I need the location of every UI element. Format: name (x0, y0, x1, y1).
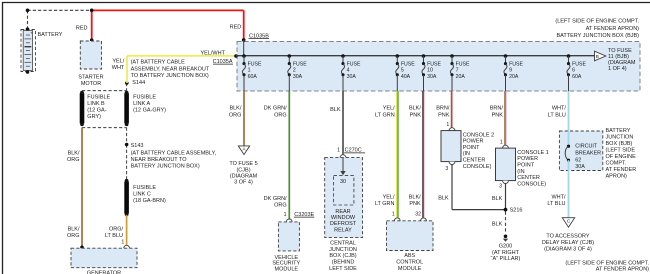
svg-text:CENTER: CENTER (463, 158, 486, 164)
svg-text:BLK: BLK (438, 196, 449, 202)
svg-text:RELAY: RELAY (334, 227, 352, 233)
svg-text:TO BATTERY JUNCTION BOX): TO BATTERY JUNCTION BOX) (131, 73, 209, 79)
svg-text:BLK: BLK (492, 221, 503, 227)
svg-text:YEL/: YEL/ (383, 106, 395, 112)
svg-text:YEL/: YEL/ (112, 58, 124, 64)
svg-text:FUSE: FUSE (401, 61, 415, 67)
svg-text:LINK A: LINK A (133, 101, 150, 107)
svg-text:(LEFT SIDE OF ENGINE COMPT.: (LEFT SIDE OF ENGINE COMPT. (555, 18, 639, 24)
svg-text:YEL/: YEL/ (383, 194, 395, 200)
svg-text:POWER: POWER (463, 139, 484, 145)
svg-text:FUSE: FUSE (572, 61, 586, 67)
svg-text:REAR: REAR (335, 209, 350, 215)
svg-text:1: 1 (284, 212, 287, 218)
svg-text:ORG: ORG (274, 112, 287, 118)
svg-text:G200: G200 (499, 244, 512, 250)
svg-text:AT FENDER APRON): AT FENDER APRON) (586, 26, 639, 32)
svg-text:CONSOLE 2: CONSOLE 2 (463, 132, 494, 138)
svg-text:62: 62 (575, 157, 581, 163)
svg-text:ORG: ORG (229, 112, 242, 118)
svg-text:BATTERY: BATTERY (606, 128, 631, 134)
svg-text:1: 1 (392, 211, 395, 217)
svg-text:AT FENDER APRON): AT FENDER APRON) (596, 267, 649, 273)
svg-text:MODULE: MODULE (275, 267, 299, 273)
svg-text:CONTROL: CONTROL (396, 260, 423, 266)
svg-text:30A: 30A (293, 74, 303, 80)
svg-text:BLK: BLK (330, 107, 341, 113)
svg-text:(LEFT SIDE: (LEFT SIDE (606, 147, 636, 153)
svg-text:JUNCTION: JUNCTION (606, 134, 634, 140)
svg-text:TO ACCESSORY: TO ACCESSORY (546, 233, 590, 239)
svg-text:FUSE: FUSE (427, 61, 441, 67)
svg-text:RED: RED (230, 25, 242, 31)
svg-text:LT BLU: LT BLU (548, 112, 566, 118)
svg-text:3: 3 (445, 166, 448, 172)
svg-text:YEL/WHT: YEL/WHT (201, 50, 226, 56)
svg-text:(12 GA-: (12 GA- (87, 108, 106, 114)
svg-text:ABS: ABS (404, 253, 415, 259)
svg-text:LT GRN: LT GRN (375, 112, 395, 118)
svg-text:BRN/: BRN/ (436, 106, 450, 112)
svg-text:1 OF 4): 1 OF 4) (608, 66, 627, 72)
svg-text:DK GRN/: DK GRN/ (264, 106, 287, 112)
svg-text:LEFT SIDE: LEFT SIDE (329, 266, 357, 272)
svg-text:(DIAGRAM 3 OF 4): (DIAGRAM 3 OF 4) (544, 246, 592, 252)
svg-text:(IN: (IN (517, 169, 524, 175)
svg-text:FUSE: FUSE (293, 61, 307, 67)
svg-text:(BEHIND: (BEHIND (332, 259, 355, 265)
svg-text:(12 GA-GRY): (12 GA-GRY) (133, 108, 166, 114)
svg-text:(AT RIGHT: (AT RIGHT (492, 250, 520, 256)
svg-text:CENTER: CENTER (517, 175, 540, 181)
svg-text:BATTERY JUNCTION BOX (BJB): BATTERY JUNCTION BOX (BJB) (556, 33, 639, 39)
svg-text:(DIAGRAM: (DIAGRAM (608, 60, 636, 66)
svg-text:S143: S143 (131, 143, 144, 149)
svg-text:WHT: WHT (112, 65, 125, 71)
svg-text:1: 1 (248, 68, 251, 74)
svg-text:COMPT.: COMPT. (606, 160, 627, 166)
svg-text:3 OF 4): 3 OF 4) (234, 179, 253, 185)
svg-text:CONSOLE): CONSOLE) (517, 181, 546, 187)
svg-text:FUSE: FUSE (456, 61, 470, 67)
svg-text:ORG/: ORG/ (109, 226, 124, 232)
svg-text:BATTERY JUNCTION BOX): BATTERY JUNCTION BOX) (131, 164, 200, 170)
svg-text:BLK/: BLK/ (68, 226, 80, 232)
svg-text:FUSIBLE: FUSIBLE (87, 95, 110, 101)
svg-text:BLK/: BLK/ (409, 106, 421, 112)
svg-text:PNK: PNK (492, 112, 504, 118)
svg-text:(AT BATTERY CABLE: (AT BATTERY CABLE (131, 60, 186, 66)
svg-text:S216: S216 (510, 208, 523, 214)
svg-text:LINK B: LINK B (87, 101, 105, 107)
svg-text:11 (BJB): 11 (BJB) (608, 54, 629, 60)
svg-text:DELAY RELAY (CJB): DELAY RELAY (CJB) (542, 240, 594, 246)
svg-text:CIRCUIT: CIRCUIT (575, 144, 598, 150)
svg-text:RED: RED (76, 26, 88, 32)
svg-text:DK GRN/: DK GRN/ (264, 196, 287, 202)
svg-text:BLK: BLK (492, 196, 503, 202)
svg-text:ASSEMBLY, NEAR BREAKOUT: ASSEMBLY, NEAR BREAKOUT (131, 66, 210, 72)
svg-text:9: 9 (509, 68, 512, 74)
svg-text:1: 1 (500, 139, 503, 145)
svg-text:PNK: PNK (438, 112, 450, 118)
svg-text:CONSOLE): CONSOLE) (463, 164, 492, 170)
svg-text:LT BLU: LT BLU (547, 201, 565, 207)
svg-text:BATTERY: BATTERY (38, 32, 63, 38)
svg-text:BOX (BJB): BOX (BJB) (606, 141, 633, 147)
svg-text:4: 4 (347, 68, 350, 74)
svg-text:S144: S144 (132, 80, 145, 86)
svg-text:20A: 20A (456, 74, 466, 80)
svg-text:BREAKER: BREAKER (575, 150, 601, 156)
svg-text:MODULE: MODULE (398, 266, 422, 272)
svg-text:(AT BATTERY CABLE ASSEMBLY,: (AT BATTERY CABLE ASSEMBLY, (131, 150, 217, 156)
svg-text:NEAR BREAKOUT TO: NEAR BREAKOUT TO (131, 157, 188, 163)
svg-text:32: 32 (415, 211, 421, 217)
svg-text:BLK/: BLK/ (68, 150, 80, 156)
svg-text:FUSIBLE: FUSIBLE (133, 95, 156, 101)
svg-text:“A” PILLAR): “A” PILLAR) (491, 256, 521, 262)
svg-text:ORG: ORG (274, 203, 287, 209)
svg-text:LINK C: LINK C (133, 192, 151, 198)
svg-text:30A: 30A (347, 74, 357, 80)
svg-text:GENERATOR: GENERATOR (87, 271, 121, 274)
svg-text:BOX (CJB): BOX (CJB) (329, 253, 356, 259)
svg-text:MOTOR: MOTOR (81, 81, 101, 87)
svg-text:POINT: POINT (463, 145, 480, 151)
svg-text:(18 GA-BRN): (18 GA-BRN) (133, 198, 166, 204)
svg-text:WINDOW: WINDOW (331, 215, 356, 221)
svg-text:BRN/: BRN/ (490, 106, 504, 112)
svg-text:60A: 60A (572, 74, 582, 80)
svg-text:WHT/: WHT/ (552, 106, 567, 112)
svg-text:(IN: (IN (463, 151, 470, 157)
svg-text:3: 3 (499, 184, 502, 190)
svg-text:FUSE: FUSE (509, 61, 523, 67)
svg-text:GRY): GRY) (87, 114, 101, 120)
svg-text:(LEFT SIDE OF ENGINE COMPT.: (LEFT SIDE OF ENGINE COMPT. (565, 260, 649, 266)
svg-text:PNK: PNK (409, 201, 421, 207)
svg-text:7: 7 (456, 68, 459, 74)
svg-text:BLK/: BLK/ (229, 106, 241, 112)
svg-text:2: 2 (293, 68, 296, 74)
svg-text:AT FENDER: AT FENDER (606, 167, 637, 173)
svg-text:FUSIBLE: FUSIBLE (133, 185, 156, 191)
svg-text:OF ENGINE: OF ENGINE (606, 154, 637, 160)
svg-text:ORG: ORG (67, 157, 80, 163)
svg-text:CENTRAL: CENTRAL (330, 240, 356, 246)
svg-text:PNK: PNK (410, 112, 422, 118)
svg-text:1: 1 (446, 122, 449, 128)
svg-text:LT GRN: LT GRN (375, 201, 395, 207)
svg-text:DEFROST: DEFROST (330, 221, 357, 227)
svg-text:TO FUSE: TO FUSE (608, 48, 632, 54)
svg-text:JUNCTION: JUNCTION (329, 247, 357, 253)
svg-text:5: 5 (401, 68, 404, 74)
svg-text:FUSE: FUSE (347, 61, 361, 67)
svg-text:6: 6 (572, 68, 575, 74)
svg-text:B: B (596, 54, 599, 59)
svg-text:CONSOLE 1: CONSOLE 1 (517, 150, 548, 156)
svg-text:40A: 40A (401, 74, 411, 80)
svg-text:1: 1 (337, 148, 340, 154)
svg-text:POWER: POWER (517, 156, 538, 162)
svg-text:30A: 30A (575, 164, 585, 170)
svg-text:ORG: ORG (67, 233, 80, 239)
svg-text:20A: 20A (509, 74, 519, 80)
svg-text:10: 10 (427, 68, 433, 74)
svg-text:WHT/: WHT/ (551, 194, 566, 200)
svg-text:LT BLU: LT BLU (105, 233, 123, 239)
svg-text:FUSE: FUSE (248, 61, 262, 67)
svg-text:60A: 60A (248, 74, 258, 80)
svg-text:BLK/: BLK/ (409, 194, 421, 200)
svg-text:+: + (30, 30, 33, 35)
svg-text:30A: 30A (427, 74, 437, 80)
svg-text:POINT: POINT (517, 163, 534, 169)
svg-text:30: 30 (340, 179, 346, 185)
svg-text:APRON): APRON) (606, 173, 628, 179)
svg-text:1: 1 (121, 239, 124, 245)
svg-text:STARTER: STARTER (78, 75, 103, 81)
